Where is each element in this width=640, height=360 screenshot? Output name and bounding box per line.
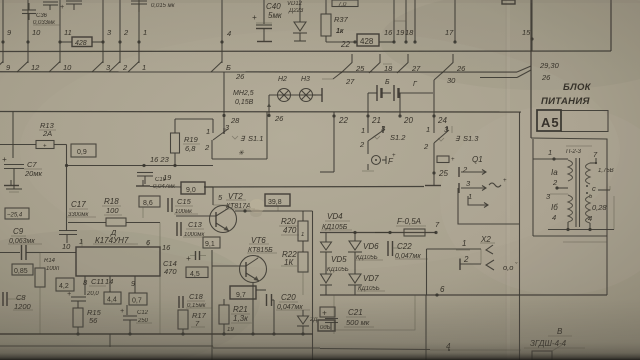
ground C7 [6,188,22,190]
svg-text:МН2,5: МН2,5 [233,90,254,97]
svg-text:9,0: 9,0 [186,187,196,194]
bus4 horizontal [0,111,521,114]
capacitor stub top-left [10,180,12,186]
svg-text:4: 4 [588,214,592,223]
wire terminal 19 [405,0,407,42]
lamp H3 [300,89,313,102]
svg-text:С9: С9 [13,227,24,236]
svg-text:100п: 100п [46,266,60,272]
diode VD12 [299,0,301,22]
svg-text:VD5: VD5 [331,255,347,264]
svg-text:R18: R18 [104,197,119,206]
svg-text:С17: С17 [71,200,86,209]
svg-text:1: 1 [548,148,552,157]
svg-text:20: 20 [403,116,413,125]
box 428 right [357,34,379,46]
switch S1.3 [433,112,435,128]
svg-text:1к: 1к [336,28,344,35]
wire 15 lower stub [531,39,533,51]
wire 22 down [333,112,335,172]
svg-text:2: 2 [204,143,210,152]
hook wire 25 [341,54,352,73]
svg-text:+: + [2,155,7,164]
resistor R19 [174,119,176,133]
bus7 rectifier top [320,232,436,234]
svg-text:26: 26 [541,73,551,82]
switch S1.1 frame [212,158,267,160]
wire terminal 10 top [27,0,29,63]
diode VD5 lower [325,262,327,274]
svg-text:1: 1 [361,126,365,135]
capacitor C9 [0,252,20,254]
jumper bracket pins 16-19 [394,14,406,21]
svg-text:39,8: 39,8 [268,199,282,206]
svg-text:R19: R19 [184,135,199,144]
resistor R15 [73,308,83,327]
node 20 dot [398,114,401,117]
svg-text:Н2: Н2 [278,76,287,83]
bus1 right corner up [610,0,612,51]
wire junction to lower bus [109,334,111,347]
wire VT6 emitter down [252,283,254,334]
svg-text:470: 470 [283,226,297,235]
wire right vertical lower [312,211,314,360]
box 428 left [72,37,92,47]
svg-text:С7: С7 [27,160,37,169]
svg-text:1,75В: 1,75В [598,168,614,174]
wire terminal 3 top [102,0,104,63]
svg-text:+: + [43,144,47,150]
svg-text:6: 6 [440,285,445,294]
lamp row end terminal [313,94,323,96]
diode VD7 lower [354,262,356,274]
wire 21 battery left [367,93,369,112]
svg-text:ПИТАНИЯ: ПИТАНИЯ [541,96,590,107]
branch wire 27 down [333,72,342,79]
svg-text:1: 1 [206,127,210,136]
svg-text:26: 26 [235,72,245,81]
svg-text:+: + [451,157,455,163]
svg-text:0,9: 0,9 [77,149,87,156]
box 4,4 [104,292,121,304]
hook wire 9 to lower bus [0,62,3,73]
svg-text:5мк: 5мк [268,11,283,20]
wire center vertical bottom [211,334,213,360]
node 22 dot [332,114,335,117]
battery cell Б [368,92,377,94]
svg-text:10: 10 [63,63,72,72]
svg-text:С13: С13 [188,220,203,229]
svg-text:F-0,5А: F-0,5А [397,217,421,226]
wire terminal 18 [414,0,416,42]
diode bottom right [302,310,304,316]
svg-text:1: 1 [468,192,472,201]
hook wire 12 to lower bus [17,62,28,73]
wire 30 hook from bus2 [434,72,443,80]
capacitor top edge B [66,0,82,2]
svg-text:1: 1 [426,125,430,134]
jack frame X2 [480,249,482,264]
svg-text:6,8: 6,8 [185,144,196,153]
battery cell Г [393,85,395,101]
svg-text:С19: С19 [155,177,167,183]
svg-text:+: + [252,13,257,22]
svg-text:Iб: Iб [551,203,558,212]
top small box right [502,0,515,4]
svg-text:0,85: 0,85 [14,268,28,275]
svg-text:17: 17 [445,28,454,37]
wire 4 vertical [221,0,223,63]
transformer secondary lower [586,196,591,223]
capacitor C19 [137,172,153,174]
svg-text:28: 28 [230,116,240,125]
svg-text:10: 10 [32,28,41,37]
svg-text:22: 22 [340,40,350,49]
svg-text:2: 2 [463,255,469,264]
capacitor C17 [59,230,77,232]
wire R19 top to switch pin 1 [175,118,213,120]
paper mottling [0,230,260,360]
resistor R21 [223,299,225,305]
wire C9 to IC [40,252,76,254]
stain spot [249,199,265,213]
wire terminal 17 [454,0,456,42]
wire terminal 15 [531,0,533,39]
svg-text:24: 24 [437,116,447,125]
capacitor C40 [263,0,265,24]
node 21 dot [366,114,369,117]
box 39,8 [265,194,290,206]
box 0,9 measurement [71,144,96,157]
svg-text:9,7: 9,7 [236,292,246,299]
svg-text:428: 428 [75,40,87,47]
hook wire 27 [397,54,408,73]
svg-text:R37: R37 [334,15,349,24]
box 9,1 [203,237,220,248]
wire node 4 vertical [425,295,427,360]
wire 16,23 bus [66,165,213,167]
squiggle mark [489,183,501,187]
svg-text:4,2: 4,2 [59,283,69,290]
svg-text:S1.3: S1.3 [463,134,479,143]
capacitor C13 [176,222,178,236]
svg-text:Д223: Д223 [288,8,304,14]
box 0дБ dark [318,320,335,331]
svg-text:1: 1 [142,63,146,72]
svg-text:S1.2: S1.2 [390,133,406,142]
svg-text:+: + [67,291,71,298]
svg-text:25: 25 [438,169,448,178]
svg-text:16 23: 16 23 [150,155,170,164]
svg-text:+: + [392,153,396,159]
svg-text:20,0: 20,0 [86,291,99,297]
rectifier frame bottom [334,295,415,330]
box 0,7 [129,293,147,305]
power block feed vertical [530,0,532,138]
diode VD6 column top [354,233,356,242]
hook wire 10 to lower bus [49,62,60,73]
capacitor C8 [2,292,4,306]
hook wire 18 overlined [369,54,380,73]
svg-text:0,015 мк: 0,015 мк [151,3,176,9]
svg-text:0,15В: 0,15В [235,99,254,106]
svg-text:+: + [60,4,64,11]
svg-text:С40: С40 [266,2,281,11]
wire terminal 1 top [138,0,140,63]
svg-text:4: 4 [552,213,556,222]
wire R13 node down [66,166,68,231]
svg-text:21: 21 [371,116,381,125]
transformer frame left [532,139,534,236]
capacitor top edge A [43,1,58,3]
svg-text:~25,4: ~25,4 [7,213,23,219]
transformer core [575,158,577,227]
bus2 merge into power block feed [517,66,531,72]
wire to speaker [448,349,450,351]
svg-text:15: 15 [522,28,531,37]
svg-text:Б: Б [385,79,390,86]
wire below indicator [367,164,369,170]
wire bus1 segment into 428 box [60,41,72,43]
box 9,0 [181,182,205,194]
bus lower secondary [0,345,213,347]
svg-text:КД105Б: КД105Б [327,267,349,273]
transformer primary winding Ib [568,195,573,222]
svg-text:20мк: 20мк [24,169,42,178]
svg-text:2: 2 [122,63,128,72]
svg-text:БЛОК: БЛОК [563,82,592,93]
svg-text:14: 14 [105,277,113,286]
svg-text:1: 1 [79,237,83,246]
svg-text:19: 19 [396,28,405,37]
node 24 dot [432,114,435,117]
svg-text:8,6: 8,6 [143,200,153,207]
svg-text:428: 428 [360,37,374,46]
svg-text:0,28: 0,28 [592,203,607,212]
svg-text:1: 1 [301,232,304,238]
resistor R37 [325,0,327,14]
svg-text:с: с [592,184,596,193]
hook wire 3 to lower bus [92,62,103,73]
transformer frame bottom [533,235,607,237]
svg-text:S1.1: S1.1 [248,134,263,143]
wire lamp branch 28 vertical [223,72,225,128]
svg-text:VD7: VD7 [363,274,379,283]
box 8,6 [139,196,160,207]
svg-text:22: 22 [338,116,348,125]
svg-text:С15: С15 [177,197,192,206]
wire y187 rail [150,186,181,189]
svg-text:2: 2 [423,142,429,151]
box 4,2 [56,278,74,291]
svg-text:470: 470 [164,267,177,276]
box 0,85 [12,264,33,275]
wire S1.3 pin2 down to 25 [433,143,435,173]
svg-text:1: 1 [143,28,147,37]
svg-text:А5: А5 [541,115,560,130]
wire S1.2 pin2 down [367,141,369,154]
S1.3 enclosure frame [434,112,520,360]
contact bar X2 pin2 [459,259,461,271]
svg-text:2: 2 [552,178,558,187]
block A5 box [537,110,561,131]
capacitor C22 [375,232,390,234]
power block enclosure [531,138,607,295]
svg-text:16: 16 [384,28,393,37]
svg-text:R14: R14 [44,258,56,264]
wire left rail down [211,250,213,334]
svg-text:П-2-3: П-2-3 [566,149,582,155]
wire terminal 16 [393,0,395,42]
wire terminal 2 top [119,0,121,63]
switch S1.2 [367,112,369,128]
svg-text:29,30: 29,30 [539,61,560,70]
svg-text:+: + [503,178,507,184]
block A5 extension box [561,111,608,132]
svg-text:11: 11 [64,28,72,37]
bus1 horizontal main [0,50,611,53]
svg-text:18: 18 [405,28,414,37]
bottom dark edge [0,300,640,360]
hook wire 26 [442,54,453,73]
svg-text:Q1: Q1 [472,155,483,164]
box 7,0 top [332,0,358,7]
svg-text:4: 4 [227,29,231,38]
svg-text:С22: С22 [397,242,412,251]
capacitor stub node 25 [433,173,435,186]
hook wire 2 to lower bus [109,62,120,73]
resistor R17 [178,310,188,329]
svg-text:С36: С36 [36,13,48,19]
svg-text:26: 26 [274,114,284,123]
svg-text:100: 100 [106,206,119,215]
svg-text:R20: R20 [281,217,296,226]
wire X2 pin1 down to bus [426,249,428,295]
wire terminal 9 top [2,0,4,63]
speaker symbol [532,351,552,360]
svg-text:о,о: о,о [503,263,513,272]
capacitor C21 [320,307,335,317]
svg-text:VD4: VD4 [327,212,343,221]
diode VD5 column left top [325,233,327,243]
svg-text:С11: С11 [91,277,104,286]
hook wire 1 to lower bus [128,62,139,73]
wire R37 to box 428 [326,41,355,43]
wire 428 to node 16 [379,41,394,43]
svg-text:2: 2 [359,140,365,149]
bus2 lower horizontal [0,71,517,73]
svg-text:27: 27 [345,77,355,86]
capacitor top edge C [131,0,147,2]
transformer bottom bus [548,229,614,231]
svg-text:9,1: 9,1 [205,241,215,248]
capacitor C20 [256,289,266,291]
transformer secondary upper [586,163,591,184]
capacitor C36 [28,3,30,10]
box 9,7 [230,286,256,299]
resistor R18 [68,222,106,224]
svg-text:Iа: Iа [551,168,558,177]
svg-text:2: 2 [123,28,129,37]
box ~25,4 [5,208,29,219]
resistor R14 area [35,268,45,287]
wire 9,0 to rail [205,186,213,188]
paper crease vertical [505,0,507,360]
svg-text:12: 12 [31,63,40,72]
top edge slight shade [0,0,640,3]
svg-text:Б: Б [226,63,231,72]
resistor R22 [302,241,304,252]
transformer primary winding Ia [568,160,573,181]
svg-text:2: 2 [462,165,468,174]
lamp H2 [278,89,291,102]
svg-text:VD6: VD6 [363,242,379,251]
svg-text:10: 10 [62,242,71,251]
svg-text:Н3: Н3 [301,76,310,83]
bus8 rectifier bottom [320,294,607,296]
capacitor stub top mid [142,180,144,186]
svg-text:С18: С18 [189,292,204,301]
box 4,5 [186,267,208,278]
capacitor C18 [178,296,180,308]
svg-text:4,5: 4,5 [190,271,200,278]
bus6 bottom main [0,333,313,335]
wire VT2 collector rail [227,206,229,209]
svg-text:16: 16 [162,243,171,252]
wire terminal 11 top [59,0,61,63]
crystal symbol [437,156,449,163]
capacitor C7 [12,112,14,159]
hook wire Б to lower bus [211,62,222,73]
svg-text:1: 1 [462,239,466,248]
transformer T1 pin 1 [533,158,554,160]
indicator fuse symbol F [372,156,381,165]
wire X2 pin1 [427,248,482,250]
wire lamp row [269,94,316,96]
svg-text:30: 30 [447,76,456,85]
